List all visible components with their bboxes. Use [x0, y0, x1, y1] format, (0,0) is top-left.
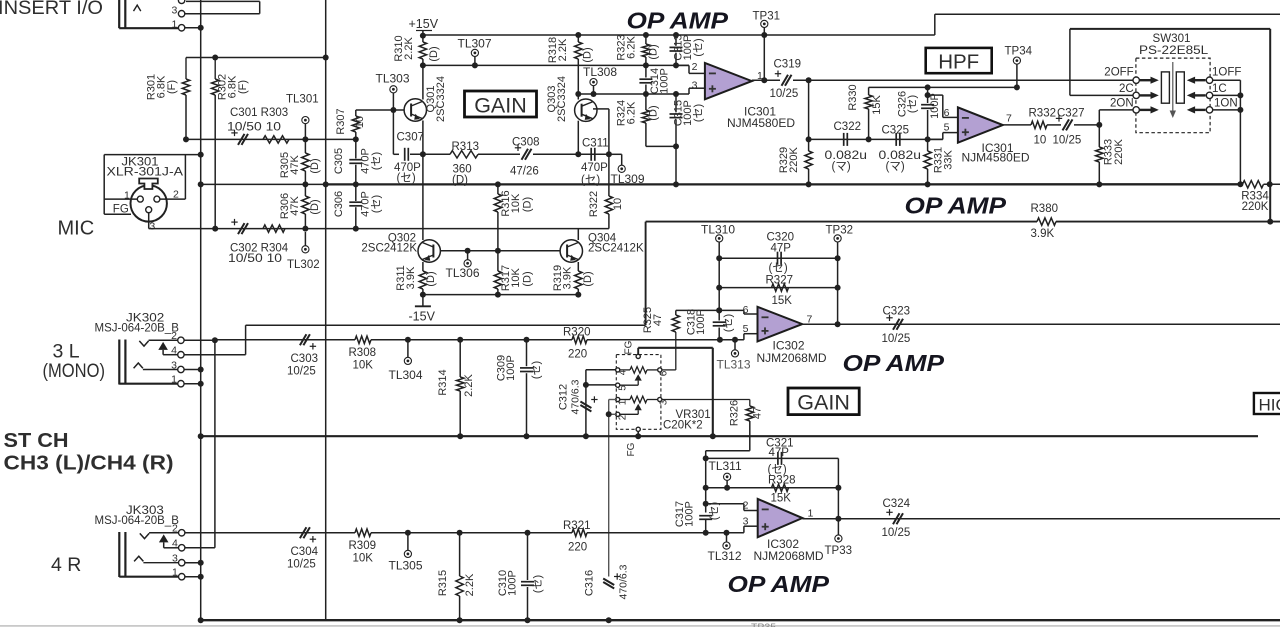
junction pin6 node: [716, 307, 722, 313]
svg-text:TL302: TL302: [287, 259, 320, 271]
test point TL301: [302, 117, 309, 124]
junction TP32 output: [835, 321, 841, 327]
junction node y=94 C315: [673, 91, 679, 97]
wire 2C link: [1069, 29, 1071, 96]
junction TL306: [465, 248, 471, 254]
junction R317 bottom: [495, 292, 501, 298]
wire pot2 right to R326: [662, 399, 750, 401]
resistor R326: [746, 406, 753, 421]
svg-text:470/6.3: 470/6.3: [618, 564, 630, 599]
capacitor C308: [522, 149, 529, 160]
pin 1 of XLR: [137, 196, 143, 202]
svg-text:R309: R309: [349, 540, 377, 552]
wire R313 to C308: [478, 153, 520, 155]
junction +15V rail start: [420, 33, 426, 39]
op-amp IC301 second half: [958, 107, 1003, 142]
junction JK302 pin1 bus: [198, 381, 204, 387]
svg-text:2.2K: 2.2K: [557, 38, 569, 61]
wire insert top riser: [259, 1, 261, 13]
svg-text:ST CH: ST CH: [4, 429, 69, 452]
svg-text:10/25: 10/25: [882, 333, 911, 345]
test point TP31: [761, 20, 768, 27]
capacitor C318: [718, 310, 720, 320]
svg-text:5: 5: [743, 323, 749, 335]
wire Q303 base stub: [593, 108, 609, 110]
wire C321 column: [837, 458, 839, 518]
svg-text:(D): (D): [452, 175, 468, 187]
svg-text:(D): (D): [582, 47, 594, 62]
junction pin6 tap: [925, 92, 931, 98]
wire VR301 pot1 wiper link: [586, 384, 617, 386]
svg-text:47K: 47K: [289, 155, 301, 175]
svg-text:10/25: 10/25: [882, 527, 911, 539]
resistor R304: [263, 225, 285, 232]
svg-text:(D): (D): [582, 271, 594, 286]
svg-text:2: 2: [692, 61, 698, 73]
svg-text:FG: FG: [626, 442, 637, 456]
svg-text:1OFF: 1OFF: [1212, 66, 1241, 78]
wire JK303 pin4 out: [185, 547, 215, 549]
resistor R329: [808, 139, 810, 151]
wire C319 node down: [808, 80, 810, 139]
svg-text:470/6.3: 470/6.3: [569, 379, 581, 414]
junction TL313: [732, 337, 738, 343]
svg-text:TP31: TP31: [753, 11, 781, 23]
svg-text:10/25: 10/25: [287, 366, 316, 378]
junction JK302 pin3 bus: [198, 367, 204, 373]
capacitor C306: [355, 184, 357, 201]
wire IC301#2 output: [1003, 124, 1031, 126]
svg-text:TL303: TL303: [376, 72, 410, 86]
svg-text:(D): (D): [648, 44, 660, 59]
svg-text:MSJ-064-20B_B: MSJ-064-20B_B: [95, 323, 180, 335]
test point TL310: [716, 235, 723, 242]
wire main bus y=184.4 thick part: [326, 183, 1241, 185]
junction node y=65.4 C313: [673, 62, 679, 68]
wire pin2 node column: [705, 458, 707, 512]
junction ground bus at bus-A: [198, 433, 204, 439]
svg-text:2: 2: [172, 523, 178, 535]
potentiometer VR301 lower element: [620, 399, 630, 401]
svg-text:GAIN: GAIN: [474, 94, 527, 118]
svg-text:3: 3: [171, 359, 177, 371]
junction C310 bottom: [525, 617, 531, 623]
resistor R310: [422, 35, 424, 42]
svg-text:TL304: TL304: [389, 368, 423, 382]
capacitor C324: [893, 513, 900, 524]
svg-text:3: 3: [149, 221, 155, 233]
resistor R331: [927, 139, 929, 151]
wire TL310 column: [718, 258, 720, 310]
junction HPF input node: [806, 77, 812, 83]
label box HPF: [926, 48, 992, 73]
junction R331 bottom: [925, 181, 931, 187]
svg-text:33K: 33K: [943, 150, 955, 170]
svg-text:R326: R326: [729, 400, 741, 426]
transistor Q304 2SC2412K: [560, 240, 582, 262]
svg-text:100P: 100P: [695, 309, 707, 335]
svg-text:R321: R321: [563, 520, 591, 532]
resistor R380: [1037, 218, 1056, 225]
resistor R302: [214, 58, 216, 80]
junction TL307: [472, 62, 478, 68]
svg-text:R328: R328: [768, 475, 796, 487]
svg-text:(セ): (セ): [692, 38, 705, 56]
switch arrow 1ON: [1194, 109, 1206, 111]
pin 2 of JK302: [178, 337, 184, 343]
pin 3 of VR301: [658, 397, 662, 401]
svg-text:7: 7: [1006, 113, 1012, 125]
wire JK303 pin1 out: [185, 576, 201, 578]
svg-text:47/26: 47/26: [510, 166, 539, 178]
svg-text:10/50 10: 10/50 10: [228, 253, 282, 265]
svg-text:10K: 10K: [510, 193, 522, 213]
wire bus-B long vertical x=325.7: [325, 0, 327, 620]
resistor R332: [1031, 121, 1047, 128]
svg-text:3: 3: [692, 80, 698, 92]
svg-text:HPF: HPF: [938, 51, 979, 74]
svg-text:C308: C308: [512, 137, 540, 149]
svg-text:15K: 15K: [772, 295, 793, 307]
wire TL308 row: [578, 93, 646, 95]
resistor R321: [572, 529, 587, 536]
test point TL303: [390, 86, 397, 93]
pin 3 of XLR: [146, 207, 152, 213]
svg-text:2SC2412K: 2SC2412K: [361, 243, 417, 255]
svg-text:C306: C306: [333, 191, 345, 217]
test point TP34: [1013, 57, 1020, 64]
junction C318 bottom row: [717, 337, 723, 343]
svg-text:R308: R308: [349, 347, 377, 359]
capacitor C326: [927, 87, 929, 103]
junction JK302 pin2 node: [212, 337, 218, 343]
wire section link vertical x=645.6: [645, 222, 647, 326]
junction R334 right: [1267, 181, 1273, 187]
svg-text:470P: 470P: [581, 162, 608, 174]
wire JK302 pin1 out: [184, 383, 201, 385]
svg-text:FG: FG: [113, 203, 129, 215]
svg-text:TL305: TL305: [389, 559, 423, 573]
junction R330/C326 top: [925, 84, 931, 90]
junction TL304: [405, 337, 411, 343]
svg-text:(D): (D): [425, 271, 437, 286]
op-amp IC302 first half: [758, 307, 803, 342]
wire node y=139.4: [186, 138, 356, 140]
wire from insert pin1 to bus-A: [185, 27, 201, 29]
junction R315 top: [457, 530, 463, 536]
svg-text:C327: C327: [1057, 108, 1085, 120]
svg-text:3.9K: 3.9K: [562, 266, 574, 289]
svg-text:15K: 15K: [771, 493, 792, 505]
junction R316/R317 mid: [495, 248, 501, 254]
switch mark JK302 pin2: [139, 341, 148, 346]
connector JK insert jack body (top, cut off): [118, 0, 120, 28]
svg-text:220K: 220K: [1113, 138, 1125, 164]
junction C305/C306 y=184.4: [353, 181, 359, 187]
wire IC302#1 output: [802, 323, 1280, 325]
test point TL313: [731, 350, 738, 357]
svg-text:10K: 10K: [510, 268, 522, 288]
junction R307/C305 y=139.4: [353, 136, 359, 142]
resistor R333: [1098, 125, 1100, 147]
svg-text:C316: C316: [584, 570, 596, 596]
svg-text:100P: 100P: [929, 93, 941, 119]
junction rail R323: [643, 32, 649, 38]
capacitor C304: [300, 527, 307, 538]
capacitor C309: [526, 340, 528, 366]
junction R329 top: [806, 136, 812, 142]
svg-text:R313: R313: [452, 141, 480, 153]
junction bus-A y=184.4: [198, 181, 204, 187]
resistor R311: [422, 262, 424, 271]
switch arrow 1C: [1194, 94, 1206, 96]
svg-text:5: 5: [944, 122, 950, 134]
junction TL column y=228.6: [302, 226, 308, 232]
svg-text:2: 2: [171, 330, 177, 342]
junction TL305: [405, 530, 411, 536]
junction C326 bottom: [925, 136, 931, 142]
svg-text:10/25: 10/25: [287, 559, 316, 571]
wire bottom bus y=620.2: [200, 619, 1280, 621]
connector JK303 body: [118, 532, 120, 577]
pin 1C: [1206, 92, 1212, 98]
junction TP33 output: [835, 516, 841, 522]
svg-text:R380: R380: [1031, 203, 1059, 215]
wire R327 row: [719, 287, 837, 289]
resistor R323: [645, 35, 647, 44]
wire bus stub to edge: [1264, 183, 1280, 185]
wire pot2 left column: [609, 399, 617, 401]
svg-text:2SC3324: 2SC3324: [435, 76, 447, 122]
capacitor C323: [893, 319, 900, 330]
svg-text:OP AMP: OP AMP: [905, 193, 1007, 219]
capacitor C316: [603, 579, 614, 586]
svg-text:1: 1: [171, 374, 177, 386]
capacitor C312: [580, 402, 591, 409]
resistor R305: [304, 139, 306, 153]
junction R314 bottom: [457, 433, 463, 439]
label box GAIN (first stage): [465, 91, 537, 117]
wire Q301 emitter: [422, 121, 424, 155]
power -15V symbol: [422, 295, 424, 307]
wire C307 to R313: [410, 153, 450, 155]
svg-text:C325: C325: [882, 125, 910, 137]
svg-text:FG: FG: [624, 340, 635, 354]
junction R316 top: [495, 181, 501, 187]
svg-text:1: 1: [172, 567, 178, 579]
junction JK303 pin3 bus: [198, 560, 204, 566]
junction R328 left: [703, 485, 709, 491]
svg-text:(MONO): (MONO): [43, 360, 106, 382]
junction x=676 on bus: [673, 181, 679, 187]
svg-text:(D): (D): [522, 271, 534, 286]
junction C318 top: [716, 307, 722, 313]
svg-text:R330: R330: [847, 84, 859, 110]
junction C312 wiper tap: [583, 382, 589, 388]
svg-text:C303: C303: [291, 353, 319, 365]
wire Q303 emitter: [577, 121, 579, 155]
svg-text:3: 3: [172, 552, 178, 564]
test point TP32: [834, 235, 841, 242]
wire node y=65.4 to pin2: [676, 64, 689, 66]
svg-text:220: 220: [568, 542, 587, 554]
wire C320 row: [719, 257, 837, 259]
op-amp IC302 second half: [758, 499, 803, 537]
svg-text:C312: C312: [558, 384, 570, 410]
wire pot1 right to R325: [662, 369, 676, 371]
capacitor C327: [1063, 119, 1070, 130]
svg-text:TL301: TL301: [286, 94, 319, 106]
svg-text:1: 1: [808, 508, 814, 520]
resistor R330: [868, 87, 870, 95]
resistor R334: [1243, 181, 1264, 188]
junction R328 right: [835, 485, 841, 491]
wire JK302 pin2 out: [184, 339, 215, 341]
resistor R318: [577, 35, 579, 42]
svg-text:HIGH: HIGH: [1259, 396, 1280, 415]
junction TL303 base: [390, 107, 396, 113]
wire JK302 pin4 row y=325.2: [246, 324, 646, 326]
svg-text:INSERT I/O: INSERT I/O: [0, 0, 103, 19]
svg-text:10: 10: [354, 116, 366, 128]
transistor Q301 2SC3324: [404, 99, 426, 121]
switch arrow 2C: [1140, 94, 1152, 96]
svg-text:(セ): (セ): [531, 575, 544, 593]
wire ch3 signal row: [215, 339, 355, 341]
svg-text:OP AMP: OP AMP: [728, 571, 830, 597]
label box GAIN (second stage): [788, 388, 859, 415]
switch arrow 1OFF: [1194, 79, 1206, 81]
junction R334 left: [1237, 181, 1243, 187]
junction R327 right: [835, 285, 841, 291]
svg-text:(D): (D): [428, 46, 440, 61]
svg-text:C311: C311: [582, 138, 609, 150]
junction R311 bottom: [420, 292, 426, 298]
svg-text:220K: 220K: [788, 146, 800, 172]
resistor R325: [675, 310, 677, 315]
pin 2C: [1133, 92, 1139, 98]
wire HPF row y=139.4: [809, 138, 943, 140]
svg-text:6: 6: [743, 304, 749, 316]
svg-text:TL312: TL312: [708, 549, 742, 563]
resistor R313: [450, 151, 478, 158]
wire JK302 pin4 out: [184, 354, 246, 356]
wire C327 to node: [1074, 124, 1099, 126]
test point TL312: [723, 542, 730, 549]
svg-text:100P: 100P: [659, 68, 671, 94]
svg-text:C322: C322: [834, 121, 862, 133]
junction C309 bottom: [524, 433, 530, 439]
switch mark JK303 pin3: [134, 556, 143, 561]
capacitor C317: [699, 515, 712, 517]
svg-text:C324: C324: [883, 498, 911, 510]
svg-text:(D): (D): [309, 158, 321, 173]
wire Q302/Q304 base row: [440, 250, 561, 252]
wire TL303 column to C307: [392, 110, 394, 154]
junction C316 bottom: [606, 617, 612, 623]
wire node y=57.5 from R301 to bus-B: [186, 57, 326, 59]
svg-text:10K: 10K: [353, 553, 374, 565]
wire R332 to C327: [1047, 124, 1061, 126]
svg-text:47: 47: [752, 407, 764, 419]
resistor R319: [577, 262, 579, 271]
wire -15V row: [423, 294, 578, 296]
switch mark JK303 pin2: [140, 533, 149, 538]
junction JK303 pin1 bus: [198, 574, 204, 580]
capacitor C325: [895, 133, 897, 146]
transistor Q303 2SC3324: [575, 99, 597, 121]
wire feedback right column: [1269, 29, 1271, 222]
wire Q304 collector: [577, 229, 579, 240]
resistor R315: [459, 533, 461, 576]
pin 1OFF: [1206, 77, 1212, 83]
svg-text:NJM2068MD: NJM2068MD: [757, 351, 827, 365]
wire VR301 bottom to bus: [637, 431, 639, 436]
svg-text:(セ): (セ): [370, 152, 383, 170]
wire 1OFF to right column: [1213, 79, 1241, 81]
junction Q303 emitter row: [575, 151, 581, 157]
svg-text:GAIN: GAIN: [797, 391, 850, 415]
junction pin2 node: [703, 501, 709, 507]
capacitor C315: [675, 94, 677, 112]
svg-text:SW301: SW301: [1153, 33, 1191, 45]
pin 4 of JK302: [178, 352, 184, 358]
svg-text:CH3 (L)/CH4 (R): CH3 (L)/CH4 (R): [4, 452, 174, 475]
svg-text:2: 2: [618, 414, 629, 420]
svg-text:R327: R327: [766, 275, 794, 287]
capacitor C301: [238, 134, 245, 145]
capacitor C303: [300, 334, 307, 345]
junction R301 bottom: [183, 136, 189, 142]
wire ch4 signal row: [185, 532, 355, 534]
wire mono link vertical: [214, 340, 216, 548]
junction R327 left: [716, 285, 722, 291]
svg-text:47K: 47K: [289, 196, 301, 216]
svg-text:(マ): (マ): [832, 161, 851, 173]
switch mark JK302 pin3: [134, 363, 143, 368]
svg-text:10/25: 10/25: [770, 88, 799, 100]
junction C310 top: [525, 530, 531, 536]
junction 1C: [1237, 92, 1243, 98]
junction R302 top: [212, 55, 218, 61]
wire C319 to HPF input: [793, 79, 1133, 81]
wire from insert pin3 to riser: [185, 13, 260, 15]
svg-text:NJM2068MD: NJM2068MD: [754, 549, 824, 563]
junction R333 bottom: [1096, 181, 1102, 187]
resistor R303: [263, 136, 289, 143]
junction C321 left: [703, 455, 709, 461]
wire 1ON to right column: [1213, 109, 1241, 111]
pin 2ON: [1133, 107, 1139, 113]
junction C312 bottom: [583, 433, 589, 439]
svg-text:(D): (D): [309, 199, 321, 214]
potentiometer VR301 dashed box: [616, 355, 661, 430]
junction node y=65.4 R323: [643, 62, 649, 68]
wire IC302#2 output: [802, 518, 1280, 520]
svg-text:2.2K: 2.2K: [403, 37, 415, 60]
junction TL column y=184.4: [302, 181, 308, 187]
resistor R317: [497, 251, 499, 271]
pin E of VR301: [616, 383, 620, 387]
svg-text:TL311: TL311: [709, 459, 742, 473]
wire 2ON riser: [1098, 110, 1100, 125]
svg-text:TP35: TP35: [751, 622, 776, 627]
junction output row right: [1267, 219, 1273, 225]
junction R319 bottom: [575, 292, 581, 298]
wire JK302 pin3 out: [184, 369, 201, 371]
svg-text:15K: 15K: [871, 95, 883, 115]
pin 1ON: [1206, 107, 1212, 113]
